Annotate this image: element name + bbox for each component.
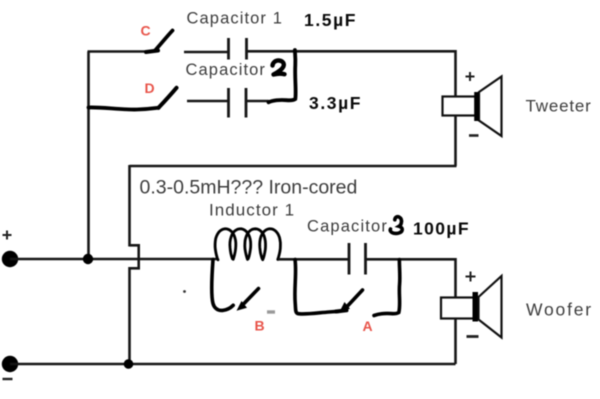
svg-text:Woofer: Woofer [526, 300, 593, 320]
wire: positive bus from capacitor C3 to woofer plus terminal [366, 259, 456, 297]
wire: hand-drawn node riser between switch B and switch A [295, 260, 340, 315]
wire: woofer return down to negative bus [454, 320, 457, 365]
switch A fixed contact and right riser (hand-drawn) up to positive bus [374, 260, 400, 316]
switch B fixed contact stub [267, 310, 275, 313]
wire: top wire from capacitor C1 to tweeter plus terminal [247, 51, 456, 96]
input terminal positive (plus sign and solder dot) [3, 231, 12, 240]
inductor L1 (hand-drawn coil) [215, 229, 280, 260]
switch D (open lever, hand-drawn) [159, 88, 177, 108]
stray ink dot [183, 290, 186, 293]
handwritten 3 of Capacitor 3 [390, 217, 402, 234]
wire: positive bus from input terminal to inductor [10, 258, 218, 261]
junction: negative bus and tweeter return [124, 359, 134, 369]
input terminal negative (solder dot and minus sign) [2, 356, 18, 372]
capacitor C1 (left wire, plates, right lead into top wire) [184, 38, 247, 60]
tweeter minus sign [469, 134, 479, 137]
svg-text:B: B [255, 318, 265, 334]
wire: switch C feed from riser corner [88, 50, 152, 53]
wire: hand-drawn connector from capacitor C2 output up to top wire [269, 50, 296, 102]
capacitor C3 (plates) [349, 243, 366, 275]
svg-text:1.5µF: 1.5µF [304, 10, 357, 30]
wire: crossover jog (tweeter return hops the positive bus) [130, 245, 139, 268]
switch A lever arrow (open) [340, 290, 363, 312]
wire: tweeter return lower vertical down to negative bus [128, 267, 131, 364]
tweeter plus sign [466, 72, 475, 81]
tweeter speaker symbol (box, horn, coil bar) [443, 77, 502, 137]
handwritten 2 of Capacitor 2 [273, 60, 285, 74]
svg-text:C: C [141, 23, 151, 39]
svg-text:3.3µF: 3.3µF [309, 93, 362, 113]
svg-text:Capacitor: Capacitor [186, 61, 267, 79]
svg-text:100µF: 100µF [413, 219, 470, 239]
switch A pivot foot [336, 310, 347, 311]
svg-text:Capacitor 1: Capacitor 1 [187, 10, 283, 28]
svg-text:0.3-0.5mH??? Iron-cored: 0.3-0.5mH??? Iron-cored [140, 177, 358, 199]
wire: positive bus from inductor to capacitor C3 [278, 258, 348, 261]
woofer minus sign [467, 335, 479, 338]
wire: tweeter return (right vertical below speaker, bottom wire, left vertical) [130, 116, 457, 247]
woofer plus sign [466, 272, 476, 282]
svg-text:A: A [363, 318, 373, 334]
svg-text:D: D [145, 80, 155, 96]
svg-text:Capacitor: Capacitor [307, 218, 388, 236]
switch B riser (hand-drawn) from positive bus down [212, 260, 233, 311]
svg-text:Inductor 1: Inductor 1 [209, 201, 295, 220]
switch D feed wire (hand-drawn) from riser [89, 107, 159, 109]
svg-text:Tweeter: Tweeter [526, 97, 592, 116]
switch C (open lever, hand-drawn) [146, 31, 173, 53]
switch B lever arrow (open) [237, 289, 259, 311]
capacitor C2 (left wire, plates, right wire) [187, 88, 269, 118]
wire: negative bus [10, 363, 456, 366]
wire: left vertical riser from positive bus up to switches C and D [87, 52, 90, 260]
junction: positive bus and left riser [83, 254, 93, 264]
woofer speaker symbol (box, horn, coil bar) [441, 276, 502, 338]
